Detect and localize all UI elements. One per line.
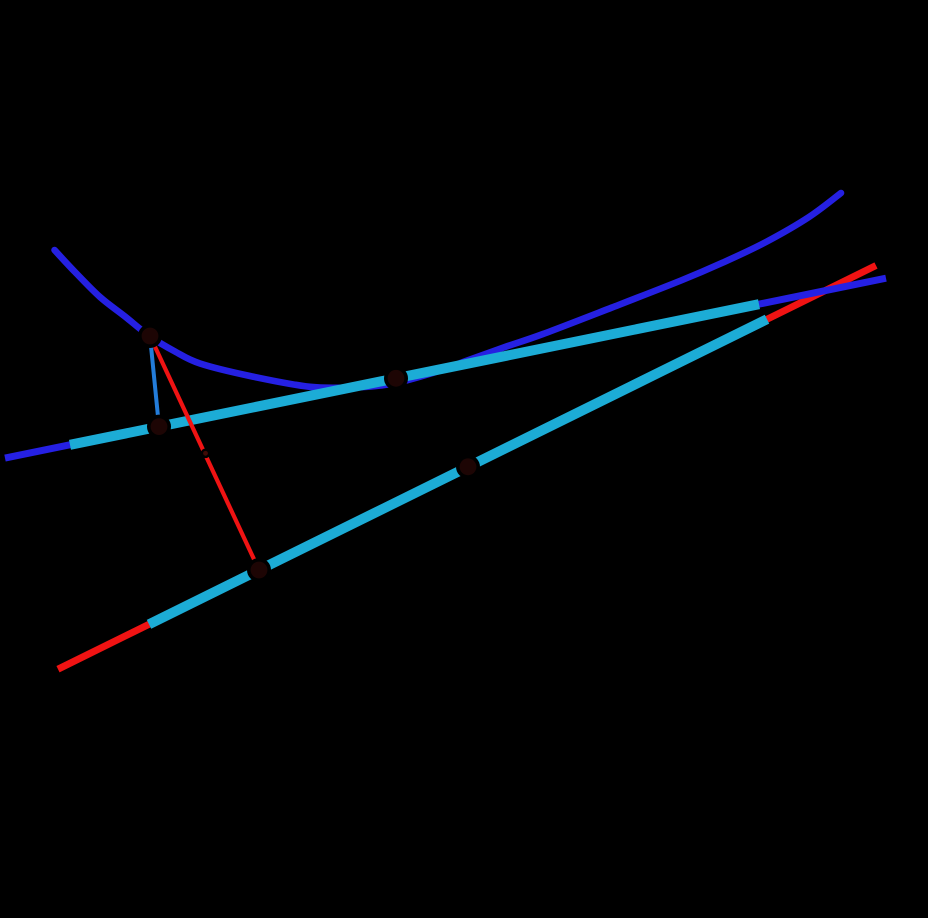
- point A (on curve): [142, 328, 159, 345]
- point F (small, on segment k): [203, 451, 208, 456]
- halo of point D: [456, 455, 480, 479]
- point D (on line g): [460, 458, 477, 475]
- halo of point E: [247, 558, 271, 582]
- segment k (red normal, point A to point E): [150, 336, 259, 570]
- point C (tangency point): [388, 370, 405, 387]
- halo of point F: [201, 449, 211, 459]
- point E (on line g): [251, 562, 268, 579]
- point B (on tangent line): [151, 418, 168, 435]
- segment h (cyan overlay on tangent line f): [70, 304, 759, 445]
- halo of point B: [147, 415, 171, 439]
- curve c (blue function curve): [55, 193, 842, 388]
- halo of point A: [138, 324, 162, 348]
- line f (blue underlay line, upper / tangent): [5, 278, 886, 458]
- line g (red underlay line, lower): [58, 266, 876, 670]
- segment i (cyan overlay on line g): [149, 319, 767, 624]
- halo of point C: [384, 366, 408, 390]
- segment j (dodger blue, point A to point B): [150, 336, 159, 427]
